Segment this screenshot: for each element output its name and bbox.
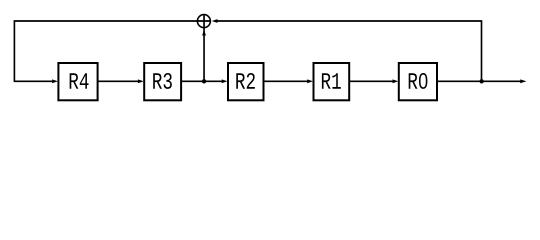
wire: R0 to output <box>438 80 521 82</box>
wire: feedback from output dot up and left into XOR right input <box>217 21 482 81</box>
register R4 box <box>58 63 97 100</box>
LFSR shift-register schematic <box>0 0 540 121</box>
register R3 label <box>153 73 172 89</box>
wire: R2 to R1 <box>264 80 307 82</box>
arrowhead output <box>520 79 526 83</box>
register R3 box <box>144 63 181 100</box>
arrowhead into R4 <box>52 79 58 83</box>
arrowhead into XOR bottom input <box>202 30 206 36</box>
register R2 box <box>228 63 264 100</box>
register R1 label <box>322 73 341 89</box>
register R1 box <box>314 63 350 100</box>
wire: tap from R3/R2 junction up into XOR bottom (vertical plus bar) <box>203 15 205 81</box>
register R0 box <box>399 63 437 100</box>
register R0 label <box>409 73 428 89</box>
xor gate U1 (circle-plus) <box>197 15 210 28</box>
wire: R4 to R3 <box>98 80 138 82</box>
register R4 label <box>70 73 89 89</box>
arrowhead into R1 <box>307 79 313 83</box>
wire: R1 to R0 <box>350 80 393 82</box>
arrowhead into R2 <box>222 79 228 83</box>
wire: R3 to R2 <box>182 80 222 82</box>
arrowhead into XOR right input <box>212 19 218 23</box>
arrowhead into R0 <box>393 79 399 83</box>
register R2 label <box>236 73 255 89</box>
junction node at R3/R2 tap <box>202 79 206 83</box>
junction node at output feedback <box>479 79 483 83</box>
arrowhead into R3 <box>138 79 144 83</box>
wire: XOR output left along top, down left side, into R4 <box>14 21 210 81</box>
